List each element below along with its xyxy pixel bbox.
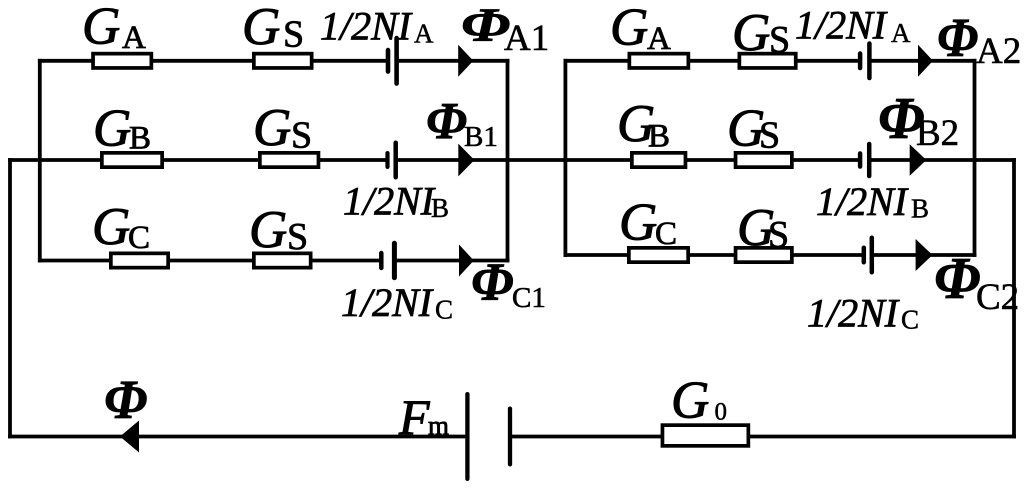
wire bottom left segment xyxy=(8,435,467,439)
flux arrow of branch A2 xyxy=(918,45,933,77)
wire row B middle segment xyxy=(396,158,860,162)
svg-text:Φ: Φ xyxy=(426,93,467,150)
svg-text:Φ: Φ xyxy=(104,369,147,430)
label G_S row C right xyxy=(737,199,789,257)
svg-text:A1: A1 xyxy=(504,18,549,59)
wire row A1 right segment xyxy=(397,59,510,63)
resistor G_B right xyxy=(632,153,686,167)
label value 1/2NI_A right xyxy=(795,3,911,49)
svg-text:G: G xyxy=(610,0,648,56)
svg-text:Φ: Φ xyxy=(471,252,514,312)
wire right bus of right circuit xyxy=(973,59,977,257)
label flux label Phi_B1 xyxy=(426,93,498,153)
mmf source 1/2NI_C left short plate xyxy=(379,251,384,270)
svg-text:C: C xyxy=(901,305,919,335)
wire row A2 right segment xyxy=(869,59,976,63)
svg-text:A: A xyxy=(647,21,671,57)
flux arrow of branch B2 xyxy=(910,144,927,175)
label flux label Phi_A2 xyxy=(937,7,1021,72)
mmf source 1/2NI_B right long plate xyxy=(867,142,872,179)
mmf source 1/2NI_A right long plate xyxy=(867,41,872,80)
wire row C2 right segment xyxy=(872,253,977,257)
svg-text:B: B xyxy=(129,120,151,156)
svg-text:1/2NI: 1/2NI xyxy=(807,291,900,336)
wire row C1 left segment xyxy=(38,259,381,263)
mmf source 1/2NI_B right short plate xyxy=(858,151,863,169)
wire left bus of left circuit xyxy=(38,59,42,263)
svg-text:1/2NI: 1/2NI xyxy=(341,280,434,325)
flux arrow of branch A1 xyxy=(458,45,473,77)
label G_C left xyxy=(92,198,150,256)
svg-text:Φ: Φ xyxy=(461,0,510,52)
svg-text:C2: C2 xyxy=(976,277,1019,318)
flux arrow of main flux Phi xyxy=(120,421,139,453)
svg-text:G: G xyxy=(242,0,280,56)
wire row A2 left segment xyxy=(564,59,861,63)
label value 1/2NI_C right xyxy=(807,291,919,336)
wire right bus of left circuit xyxy=(506,59,510,263)
svg-text:B1: B1 xyxy=(464,121,498,153)
svg-text:A2: A2 xyxy=(976,31,1021,72)
svg-text:G: G xyxy=(619,193,657,251)
svg-text:B: B xyxy=(431,193,449,223)
svg-text:Φ: Φ xyxy=(937,7,978,69)
resistor G_A left xyxy=(93,54,151,68)
label value 1/2NI_B left xyxy=(343,179,449,224)
mmf source 1/2NI_C right long plate xyxy=(870,236,875,275)
wire row C1 right segment xyxy=(394,259,509,263)
mmf source 1/2NI_B left long plate xyxy=(393,141,398,180)
wire far-right vertical xyxy=(1012,158,1016,438)
svg-text:1/2NI: 1/2NI xyxy=(343,179,436,224)
mmf source 1/2NI_C right short plate xyxy=(862,246,867,265)
label G_B left xyxy=(93,100,151,158)
svg-text:1/2NI: 1/2NI xyxy=(795,3,888,48)
label G_A right xyxy=(610,0,671,57)
label flux label Phi_A1 xyxy=(461,0,549,59)
svg-text:A: A xyxy=(891,18,911,48)
svg-text:S: S xyxy=(283,14,304,56)
resistor G_C right xyxy=(629,248,688,262)
wire row B left segment xyxy=(8,158,387,162)
label G_B right xyxy=(617,95,670,154)
mmf source F_m long plate xyxy=(465,392,469,481)
flux arrow of branch C2 xyxy=(916,239,933,271)
resistor G_S row B left xyxy=(260,153,319,167)
svg-text:S: S xyxy=(769,19,790,61)
svg-text:G: G xyxy=(253,99,291,157)
resistor G_C left xyxy=(111,253,168,267)
svg-text:C1: C1 xyxy=(512,282,546,314)
label G_S row A left xyxy=(242,0,304,56)
mmf source 1/2NI_C left long plate xyxy=(392,241,397,281)
label value 1/2NI_C left xyxy=(341,280,453,325)
svg-text:A: A xyxy=(122,20,146,56)
svg-text:S: S xyxy=(759,115,780,157)
svg-text:1/2NI: 1/2NI xyxy=(816,179,909,224)
svg-text:G: G xyxy=(93,100,131,158)
svg-text:B2: B2 xyxy=(916,113,959,154)
mmf source 1/2NI_A right short plate xyxy=(858,51,863,70)
svg-text:Φ: Φ xyxy=(934,245,981,311)
mmf source 1/2NI_A left short plate xyxy=(386,48,391,74)
label G_0 bottom xyxy=(671,371,727,429)
label flux label Phi main xyxy=(104,369,147,430)
wire bottom right segment xyxy=(510,435,1016,439)
label value 1/2NI_A left xyxy=(320,4,434,49)
svg-text:S: S xyxy=(287,216,308,258)
svg-text:C: C xyxy=(655,216,677,252)
svg-text:m: m xyxy=(428,410,449,440)
svg-text:G: G xyxy=(92,198,130,256)
svg-text:G: G xyxy=(82,0,120,56)
resistor G_A right xyxy=(629,54,688,68)
mmf source 1/2NI_B left short plate xyxy=(385,151,389,169)
svg-text:0: 0 xyxy=(715,399,728,426)
flux arrow of branch B1 xyxy=(458,144,474,177)
label value 1/2NI_B right xyxy=(816,179,929,224)
svg-text:C: C xyxy=(128,220,150,256)
svg-text:B: B xyxy=(911,194,929,224)
resistor G_S row C left xyxy=(254,253,311,267)
mmf source 1/2NI_A left long plate xyxy=(394,36,399,86)
label G_A left xyxy=(82,0,146,56)
resistor G_B left xyxy=(102,153,162,167)
label G_S row B left xyxy=(253,99,312,157)
wire row A1 left segment xyxy=(38,59,388,63)
wire far-left vertical xyxy=(8,158,12,438)
flux arrow of branch C1 xyxy=(459,245,474,277)
svg-text:1/2NI: 1/2NI xyxy=(320,4,413,49)
resistor G_0 bottom xyxy=(662,425,748,446)
svg-text:G: G xyxy=(671,371,709,429)
svg-text:B: B xyxy=(648,119,670,155)
svg-text:S: S xyxy=(768,214,789,256)
resistor G_S row A left xyxy=(254,54,312,68)
label flux label Phi_C1 xyxy=(471,252,546,314)
resistor G_S row C right xyxy=(736,248,792,262)
label flux label Phi_B2 xyxy=(878,85,959,154)
svg-text:C: C xyxy=(435,295,453,325)
wire left bus of right circuit xyxy=(564,59,568,257)
svg-text:G: G xyxy=(732,4,770,62)
label G_S row C left xyxy=(249,201,308,259)
svg-text:F: F xyxy=(398,389,430,445)
wire row C2 left segment xyxy=(564,253,864,257)
mmf source F_m short plate xyxy=(508,407,512,467)
resistor G_S row A right xyxy=(739,54,795,68)
svg-text:A: A xyxy=(414,19,434,49)
label G_S row A right xyxy=(732,4,790,62)
wire row B right segment xyxy=(869,158,1016,162)
label flux label Phi_C2 xyxy=(934,245,1019,318)
label G_S row B right xyxy=(727,100,780,158)
label F_m xyxy=(398,389,449,445)
resistor G_S row B right xyxy=(736,153,792,167)
svg-text:S: S xyxy=(291,115,312,157)
svg-text:G: G xyxy=(249,201,287,259)
label G_C right xyxy=(619,193,677,252)
